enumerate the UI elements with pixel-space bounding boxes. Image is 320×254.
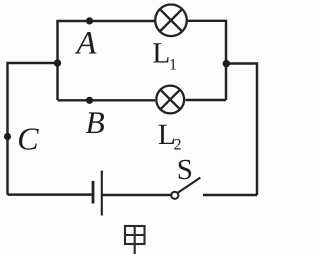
wire junction-right horizontal xyxy=(226,64,257,196)
svg-text:B: B xyxy=(86,105,105,140)
switch S pivot circle xyxy=(171,192,178,199)
svg-text:A: A xyxy=(75,26,97,62)
node C dot xyxy=(4,133,11,140)
node B dot xyxy=(86,97,93,104)
svg-text:1: 1 xyxy=(169,57,177,74)
svg-text:2: 2 xyxy=(174,137,182,154)
svg-text:C: C xyxy=(17,121,39,157)
wire top branch left segment xyxy=(58,21,155,100)
wire bottom branch right segment xyxy=(186,99,227,101)
lamp L2 xyxy=(156,86,184,114)
battery cell: long plate (positive) xyxy=(101,171,103,216)
wire switch to right corner xyxy=(203,194,257,196)
wire top branch right segment xyxy=(188,21,227,100)
battery cell: short plate (negative) xyxy=(92,181,95,204)
svg-text:L: L xyxy=(152,38,170,70)
node A dot xyxy=(86,17,93,24)
lamp L1 xyxy=(155,4,187,36)
wire battery to switch xyxy=(103,194,171,196)
svg-text:S: S xyxy=(177,154,193,186)
junction right node xyxy=(223,60,230,67)
wire bottom branch left segment xyxy=(58,99,156,101)
wire bottom left to battery xyxy=(8,193,93,195)
junction left node xyxy=(54,59,61,66)
wire junction-left horizontal xyxy=(8,63,58,195)
caption 甲 (drawn strokes) xyxy=(125,226,145,254)
switch S lever xyxy=(178,178,201,193)
